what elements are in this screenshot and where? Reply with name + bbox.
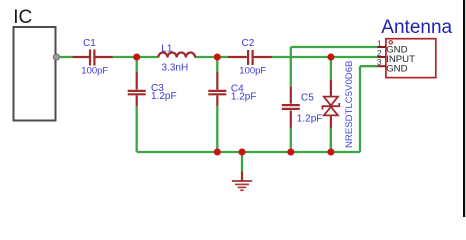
svg-text:GND: GND (386, 64, 407, 75)
svg-text:IC: IC (13, 7, 32, 28)
svg-text:3.3nH: 3.3nH (162, 62, 189, 73)
svg-text:C5: C5 (301, 93, 314, 104)
svg-text:1.2pF: 1.2pF (231, 91, 257, 102)
svg-text:1: 1 (377, 38, 382, 48)
svg-text:C1: C1 (83, 38, 96, 49)
svg-text:1.2pF: 1.2pF (151, 91, 177, 102)
svg-text:100pF: 100pF (239, 66, 266, 77)
svg-text:1.2pF: 1.2pF (297, 113, 323, 124)
svg-text:100pF: 100pF (81, 66, 108, 77)
svg-text:NRESDTLC5V0D6B: NRESDTLC5V0D6B (344, 61, 355, 148)
svg-text:L1: L1 (161, 43, 173, 54)
svg-text:Antenna: Antenna (381, 17, 452, 38)
svg-text:C2: C2 (242, 38, 255, 49)
svg-text:3: 3 (377, 57, 382, 67)
